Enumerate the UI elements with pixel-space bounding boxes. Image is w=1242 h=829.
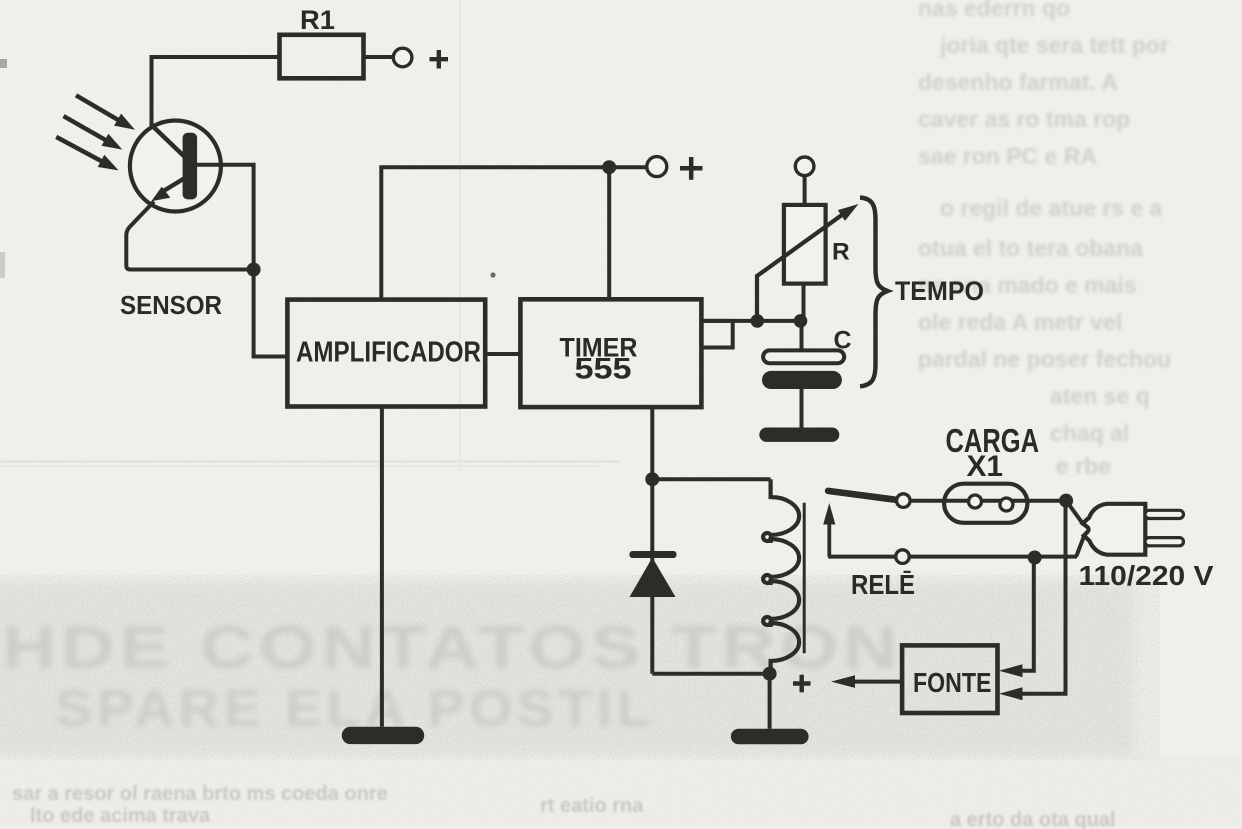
relay core line	[803, 503, 806, 654]
terminal + supply (center)	[647, 157, 667, 177]
capacitor C top plate	[763, 350, 844, 363]
band	[0, 581, 1135, 756]
wire timer bottom	[650, 407, 654, 479]
transistor Q1 photo sensor body	[130, 121, 221, 212]
relay coil K1	[763, 479, 799, 674]
arrow fonte output left	[831, 675, 902, 688]
wire node to capacitor	[800, 321, 804, 351]
plug body	[1083, 504, 1146, 555]
wire node to coil top	[652, 477, 770, 481]
fonte block	[902, 645, 997, 713]
wire R1 left to transistor collector	[152, 57, 280, 129]
ground (relay)	[731, 729, 809, 745]
wire R bottom	[802, 284, 806, 321]
right ghost paragraph column	[918, 0, 1171, 479]
svg-text:RELĒ: RELĒ	[851, 569, 915, 600]
wire mains to fonte (arrow)	[1021, 501, 1066, 694]
diode D1 cathode bar	[629, 551, 676, 558]
light arrow 2	[64, 116, 123, 150]
wire amplifier to ground	[380, 407, 384, 727]
svg-text:sae ron PC e RA: sae ron PC e RA	[918, 143, 1097, 169]
wire terminal to R	[803, 176, 807, 205]
terminal (pot top)	[795, 157, 814, 176]
amplifier block U1	[287, 300, 485, 407]
node dot coil bottom	[763, 667, 777, 681]
svg-text:otua el to tera obana: otua el to tera obana	[918, 235, 1143, 261]
relay contact (bottom)	[896, 550, 910, 564]
wire R1 to terminal	[364, 55, 394, 59]
base-collector right lead	[197, 165, 254, 270]
node dot RC	[794, 314, 808, 328]
transistor base bar	[183, 133, 198, 200]
relay actuator arrow	[823, 503, 835, 557]
node dot wiper	[751, 314, 765, 328]
svg-text:lto ede acima trava: lto ede acima trava	[30, 805, 211, 827]
svg-text:AMPLIFICADOR: AMPLIFICADOR	[296, 337, 481, 369]
svg-text:ole reda A metr vel: ole reda A metr vel	[918, 309, 1122, 335]
ground (capacitor)	[759, 428, 839, 442]
svg-text:desenho farmat. A: desenho farmat. A	[918, 69, 1118, 95]
relay contact (top)	[897, 494, 911, 508]
svg-text:C: C	[834, 327, 852, 355]
wire bottom link	[652, 672, 769, 676]
svg-text:joria qte sera tett por: joria qte sera tett por	[939, 32, 1169, 58]
lamp contact circle 2	[1000, 498, 1013, 511]
svg-text:rt eatio rna: rt eatio rna	[540, 795, 644, 817]
wire amplifier to timer	[485, 352, 520, 356]
potentiometer R body	[784, 205, 826, 284]
terminal + supply (top left)	[393, 48, 412, 67]
svg-text:555: 555	[575, 353, 632, 386]
wire rail to timer top	[607, 167, 611, 300]
plug prong 1	[1145, 510, 1184, 518]
svg-text:a erto da ota qual: a erto da ota qual	[950, 809, 1116, 829]
wire coil bottom to ground	[768, 674, 772, 729]
collector lead	[152, 125, 190, 161]
plug prong 2	[1145, 538, 1184, 546]
emitter wire to node	[126, 202, 253, 270]
potentiometer wiper arrow	[757, 212, 846, 321]
relay switch blade	[828, 491, 897, 500]
svg-text:sar a resor ol raena brto ms c: sar a resor ol raena brto ms coeda onre	[12, 783, 388, 805]
bottom ghost rows	[12, 783, 1116, 829]
wire node to amplifier	[254, 270, 288, 357]
diode D1 branch wire	[650, 479, 654, 674]
svg-text:FONTE: FONTE	[913, 667, 992, 698]
faint lines	[0, 461, 620, 463]
svg-text:110/220 V: 110/220 V	[1079, 560, 1214, 591]
relay lower rail	[828, 555, 896, 559]
svg-text:chaq al: chaq al	[1050, 420, 1129, 446]
edge mark left	[0, 59, 7, 68]
svg-text:aten se q: aten se q	[1050, 383, 1150, 409]
svg-text:R1: R1	[300, 5, 335, 35]
node junction dot sensor	[247, 263, 261, 277]
lamp X1 body	[944, 484, 1027, 523]
lamp contact circle 1	[969, 495, 982, 508]
timer 555 block U2	[520, 299, 701, 407]
emitter lead with arrow	[164, 177, 187, 191]
SCHEMATIC LAYER	[56, 35, 1183, 745]
wire lower rail to plug cord	[909, 555, 1077, 559]
svg-text:R: R	[832, 239, 850, 266]
svg-text:nas ederrn qo: nas ederrn qo	[918, 0, 1070, 21]
ground (amplifier)	[342, 727, 424, 744]
plus sign top left	[430, 50, 449, 69]
top supply rail	[381, 167, 647, 299]
brace TEMPO	[860, 198, 888, 387]
svg-text:caver as ro tma rop: caver as ro tma rop	[918, 106, 1130, 132]
diode D1 triangle	[630, 558, 676, 598]
capacitor C bottom plate	[762, 371, 842, 389]
plus sign center	[680, 157, 703, 180]
wire capacitor to ground	[800, 389, 804, 428]
mains cord top	[1066, 501, 1083, 525]
node dot lower rail	[1028, 551, 1042, 565]
svg-text:TEMPO: TEMPO	[895, 276, 984, 306]
resistor R1	[280, 35, 364, 79]
wire contact to lamp	[910, 499, 1066, 503]
svg-text:o regil de atue rs e a: o regil de atue rs e a	[940, 195, 1163, 221]
plus sign coil	[793, 675, 811, 693]
wire timer output to RC node	[701, 319, 800, 323]
mains cord bottom	[1076, 535, 1084, 557]
light arrow 1	[76, 95, 135, 129]
timer output stub pin	[701, 321, 732, 348]
svg-text:e rbe: e rbe	[1056, 453, 1111, 479]
node dot relay branch	[645, 472, 659, 486]
light arrow 3	[56, 137, 118, 171]
svg-text:pardal ne poser fechou: pardal ne poser fechou	[918, 346, 1171, 372]
paper speck	[490, 272, 495, 277]
wire relay common to fonte (arrow)	[1021, 558, 1034, 671]
svg-text:SENSOR: SENSOR	[120, 292, 222, 320]
node supply rail dot	[602, 160, 616, 174]
svg-text:X1: X1	[967, 450, 1004, 483]
node dot mains top	[1059, 494, 1073, 508]
